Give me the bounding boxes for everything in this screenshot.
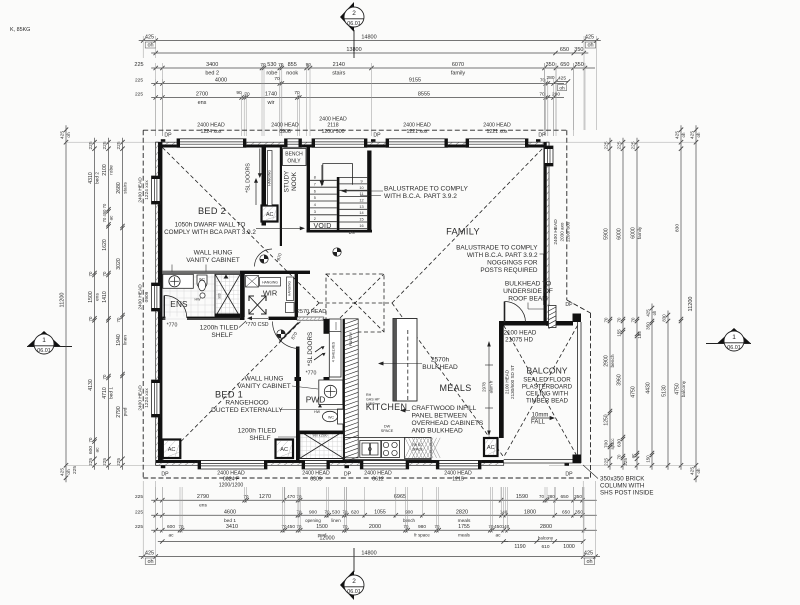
svg-text:70: 70	[278, 62, 284, 68]
svg-text:AC: AC	[487, 445, 495, 451]
svg-text:4130: 4130	[88, 379, 94, 391]
svg-text:2400 HEAD: 2400 HEAD	[138, 177, 144, 203]
note craftwood infill	[400, 405, 484, 435]
svg-text:13: 13	[359, 205, 363, 209]
svg-text:HW: HW	[314, 410, 321, 414]
svg-text:DN: DN	[349, 230, 355, 235]
svg-text:4710: 4710	[102, 387, 108, 399]
svg-text:PLASTERBOARD: PLASTERBOARD	[522, 384, 573, 391]
svg-text:830: 830	[675, 224, 681, 232]
svg-text:650: 650	[560, 494, 568, 500]
svg-text:2400 HEAD: 2400 HEAD	[197, 123, 225, 129]
svg-text:oh: oh	[696, 132, 701, 137]
wall nook/stairs	[307, 148, 310, 233]
svg-text:alum fr: alum fr	[489, 380, 494, 393]
svg-text:350: 350	[546, 62, 555, 68]
svg-text:70: 70	[343, 509, 348, 514]
note wall hung vanity (pwd)	[237, 376, 318, 391]
svg-text:WIR: WIR	[263, 288, 277, 297]
section marker right (1/06.01)	[706, 328, 751, 351]
svg-text:DUCTED EXTERNALLY: DUCTED EXTERNALLY	[211, 407, 283, 414]
window top wall 1221 xox east	[466, 139, 528, 148]
pwd wc	[323, 409, 344, 424]
svg-text:9: 9	[360, 180, 362, 184]
svg-text:425: 425	[690, 467, 696, 475]
svg-text:SHELF: SHELF	[249, 435, 270, 442]
svg-text:225: 225	[135, 524, 143, 530]
roof ridge and hip dashed lines	[162, 148, 543, 461]
pwd vanity	[319, 380, 343, 405]
wire right dim columns	[549, 125, 701, 482]
svg-text:150: 150	[646, 455, 651, 463]
svg-text:VANITY CABINET: VANITY CABINET	[237, 383, 291, 390]
svg-text:meals: meals	[458, 533, 471, 538]
svg-text:1215: 1215	[452, 477, 464, 483]
svg-text:600: 600	[167, 524, 175, 530]
svg-text:225: 225	[135, 78, 143, 84]
svg-text:2: 2	[352, 578, 356, 585]
svg-text:16: 16	[359, 224, 363, 228]
svg-text:oh: oh	[681, 132, 686, 137]
svg-text:225: 225	[72, 466, 78, 474]
svg-text:1940: 1940	[116, 334, 122, 346]
label 10mm fall	[531, 413, 555, 426]
note bulkhead roof beam	[503, 281, 553, 310]
note balustrade stairs	[341, 186, 469, 201]
svg-text:TIMBER BEAD: TIMBER BEAD	[526, 398, 568, 405]
svg-text:BALUSTRADE TO COMPLY: BALUSTRADE TO COMPLY	[456, 245, 538, 252]
bed1 door arc	[273, 322, 300, 349]
svg-text:1221 xox: 1221 xox	[486, 129, 507, 135]
wall balcony top	[499, 321, 573, 326]
svg-text:2140: 2140	[333, 62, 345, 68]
note 2570h bulkhead	[378, 357, 458, 372]
AC unit meals	[484, 438, 498, 456]
svg-text:1590: 1590	[516, 494, 528, 500]
svg-text:1224 xox: 1224 xox	[144, 180, 150, 200]
svg-text:DP: DP	[164, 133, 172, 139]
svg-text:225: 225	[135, 92, 143, 98]
svg-text:1755: 1755	[458, 524, 470, 530]
fridge space hatched	[405, 438, 441, 459]
wall pwd west	[296, 347, 300, 462]
svg-text:70: 70	[102, 374, 107, 379]
svg-text:HANGING: HANGING	[268, 170, 272, 186]
wall pwd north	[295, 377, 330, 381]
window bottom wall 0612	[360, 461, 408, 470]
svg-text:2400 HEAD: 2400 HEAD	[138, 385, 144, 411]
svg-text:ac: ac	[96, 447, 101, 453]
svg-text:HANGING: HANGING	[288, 281, 292, 296]
bench only box	[283, 149, 307, 166]
svg-text:AC: AC	[280, 447, 288, 453]
svg-text:balcony: balcony	[538, 536, 554, 541]
window left wall bed1	[152, 380, 161, 417]
svg-text:ac: ac	[109, 215, 114, 220]
svg-text:oh: oh	[696, 468, 701, 473]
svg-text:1200/ 900: 1200/ 900	[321, 129, 344, 135]
svg-text:2900: 2900	[604, 355, 610, 367]
svg-text:0612: 0612	[372, 477, 384, 483]
svg-text:VOID: VOID	[314, 223, 332, 230]
svg-text:630: 630	[617, 439, 623, 447]
svg-text:70: 70	[244, 92, 250, 98]
wire bottom dim row 2	[135, 509, 597, 524]
svg-text:2400 HEAD: 2400 HEAD	[403, 123, 431, 129]
svg-text:70: 70	[297, 509, 302, 514]
wire bottom dim row 1	[135, 494, 597, 509]
label balcony	[522, 366, 573, 405]
svg-text:DP: DP	[565, 302, 573, 308]
svg-text:DW: DW	[384, 425, 391, 429]
svg-text:2118: 2118	[327, 123, 338, 129]
svg-text:2: 2	[352, 10, 356, 17]
robe hanging rail	[268, 151, 273, 206]
svg-text:70 450 70: 70 450 70	[102, 203, 107, 222]
roof overhang dashed outline	[143, 130, 590, 478]
wire bottom dim row 5 (overall 14800)	[139, 551, 600, 566]
svg-text:POSTS REQUIRED: POSTS REQUIRED	[480, 267, 538, 274]
svg-text:8555: 8555	[418, 92, 430, 98]
svg-text:NOOK: NOOK	[291, 171, 298, 191]
wall exterior left	[156, 142, 159, 465]
wall wir east	[295, 274, 298, 320]
svg-text:3960: 3960	[617, 374, 623, 386]
svg-text:WC: WC	[328, 415, 334, 419]
svg-text:425: 425	[60, 131, 66, 139]
svg-text:BALCONY: BALCONY	[526, 366, 567, 376]
svg-text:600: 600	[88, 446, 94, 454]
wire left dim columns	[60, 125, 163, 482]
svg-text:350: 350	[574, 494, 582, 500]
svg-text:PWD: PWD	[306, 395, 326, 405]
svg-text:1050h DWARF WALL TO: 1050h DWARF WALL TO	[175, 222, 246, 229]
svg-text:900 x1500: 900 x1500	[313, 434, 328, 438]
svg-text:425: 425	[585, 35, 594, 41]
wall wir bottom	[269, 317, 298, 320]
svg-text:2100: 2100	[102, 164, 108, 176]
opening hatch 2570 head hall-kitchen	[297, 317, 324, 320]
svg-text:stairs: stairs	[332, 71, 345, 77]
svg-text:linen: linen	[331, 518, 341, 523]
svg-text:6000: 6000	[631, 227, 637, 239]
balcony bottom edge	[504, 460, 581, 464]
wire top dim row C (room string)	[134, 62, 595, 77]
svg-text:11200: 11200	[688, 297, 694, 312]
svg-text:2100 HEAD: 2100 HEAD	[505, 369, 510, 394]
svg-text:855: 855	[288, 62, 297, 68]
svg-text:oh: oh	[147, 43, 153, 49]
window bottom wall 0309	[302, 461, 330, 470]
svg-text:ens: ens	[199, 504, 207, 509]
svg-text:155: 155	[637, 331, 642, 339]
svg-text:425: 425	[646, 309, 651, 317]
svg-text:HW: HW	[195, 298, 202, 302]
svg-text:70: 70	[297, 524, 302, 529]
svg-text:VANITY CABINET: VANITY CABINET	[186, 257, 240, 264]
svg-text:70: 70	[631, 317, 636, 322]
AC unit bed1 east	[276, 440, 294, 459]
svg-text:5900: 5900	[604, 228, 610, 240]
svg-text:425: 425	[584, 551, 593, 557]
svg-text:SEALED FLOOR: SEALED FLOOR	[523, 377, 571, 384]
svg-text:280: 280	[547, 494, 555, 499]
wir hanging top	[260, 278, 281, 287]
svg-text:0309: 0309	[310, 477, 322, 483]
svg-text:COMPLY WITH BCA PART 3.9.2: COMPLY WITH BCA PART 3.9.2	[164, 229, 256, 236]
svg-text:425: 425	[145, 551, 154, 557]
wall pantry west	[343, 319, 345, 461]
svg-text:1224 xox: 1224 xox	[200, 129, 221, 135]
svg-text:2790: 2790	[116, 406, 122, 418]
svg-text:oh: oh	[652, 310, 657, 315]
svg-text:470: 470	[287, 494, 295, 500]
label bottom windows	[161, 471, 573, 489]
svg-text:2570 HEAD: 2570 HEAD	[297, 309, 327, 315]
dwarf wall under stairs	[307, 230, 373, 233]
wall exterior top	[156, 142, 549, 145]
svg-text:70: 70	[539, 494, 544, 499]
svg-text:4750: 4750	[675, 383, 681, 395]
svg-text:AC: AC	[168, 447, 176, 453]
label top windows	[164, 117, 546, 139]
svg-text:OVERHEAD CABINETS: OVERHEAD CABINETS	[412, 420, 484, 427]
svg-text:2700: 2700	[196, 92, 208, 98]
svg-text:bed 1: bed 1	[224, 518, 236, 524]
svg-text:70: 70	[404, 524, 409, 529]
svg-text:2820: 2820	[456, 509, 468, 515]
label rh gas hp ubo	[366, 393, 380, 406]
svg-text:1200/1200: 1200/1200	[219, 483, 244, 489]
window left wall bed2	[152, 176, 161, 204]
svg-text:2978: 2978	[482, 382, 487, 392]
skylight dashed box over kitchen	[326, 274, 384, 332]
window bottom wall 1215	[436, 461, 481, 470]
svg-text:oh: oh	[587, 43, 593, 49]
svg-text:HANGING: HANGING	[262, 281, 278, 285]
label dw space	[381, 425, 394, 434]
svg-text:12000: 12000	[319, 536, 334, 542]
svg-text:WITH B.C.A. PART 3.9.2: WITH B.C.A. PART 3.9.2	[384, 193, 457, 200]
svg-text:opening: opening	[305, 518, 321, 523]
svg-text:650: 650	[560, 47, 569, 53]
svg-text:3400: 3400	[206, 62, 218, 68]
svg-text:70: 70	[179, 524, 184, 529]
svg-text:bed 1: bed 1	[109, 387, 115, 399]
svg-text:ONLY: ONLY	[287, 159, 301, 165]
svg-text:610: 610	[541, 544, 549, 550]
svg-text:2400 HEAD: 2400 HEAD	[483, 123, 511, 129]
window top wall 1224 xox	[177, 139, 246, 148]
window top wall 1200/900	[312, 139, 367, 148]
svg-text:14800: 14800	[361, 551, 376, 557]
svg-text:balcony: balcony	[681, 380, 687, 397]
wire bottom dim row 4	[158, 536, 586, 551]
svg-text:STUDY: STUDY	[284, 170, 291, 192]
svg-text:4750: 4750	[631, 386, 637, 398]
wire bottom extension lines	[143, 481, 595, 559]
note rangehood	[211, 400, 344, 415]
svg-text:ens: ens	[96, 293, 101, 301]
svg-text:ens: ens	[198, 100, 207, 106]
wire bottom dim row 3	[135, 524, 597, 539]
bed2 door arc	[255, 249, 273, 267]
svg-text:2400 HEAD: 2400 HEAD	[319, 117, 347, 123]
svg-text:225: 225	[102, 458, 108, 466]
svg-text:530: 530	[267, 62, 276, 68]
svg-text:425: 425	[60, 468, 66, 476]
svg-text:350: 350	[574, 47, 583, 53]
svg-text:oh: oh	[147, 559, 153, 565]
note tiled shelf ens	[200, 321, 246, 339]
svg-text:9155: 9155	[409, 78, 421, 84]
svg-text:BULKHEAD TO: BULKHEAD TO	[505, 281, 551, 288]
svg-text:1500: 1500	[88, 291, 94, 303]
window right wall corner	[545, 146, 554, 166]
svg-text:4000: 4000	[215, 78, 227, 84]
svg-text:225: 225	[88, 458, 94, 466]
svg-text:1270: 1270	[259, 494, 271, 500]
svg-text:155: 155	[617, 329, 622, 337]
svg-text:15: 15	[359, 218, 363, 222]
svg-text:70: 70	[297, 494, 302, 499]
svg-text:14: 14	[359, 211, 363, 215]
svg-text:2570h: 2570h	[431, 357, 450, 364]
svg-text:3: 3	[314, 210, 316, 214]
wir exhaust fan	[249, 296, 266, 314]
svg-text:robe: robe	[266, 71, 277, 77]
linen closet	[324, 319, 342, 377]
stairs treads right flight	[339, 178, 367, 229]
svg-text:1740: 1740	[265, 92, 277, 98]
window left wall ens	[152, 283, 161, 311]
ens vanity	[163, 274, 194, 288]
svg-text:830: 830	[662, 314, 667, 322]
svg-text:70: 70	[88, 316, 93, 321]
svg-text:530: 530	[332, 509, 340, 515]
svg-text:425: 425	[145, 35, 154, 41]
svg-text:WC: WC	[199, 278, 205, 282]
svg-text:1224 xox: 1224 xox	[144, 388, 150, 408]
svg-text:06.01: 06.01	[347, 21, 361, 27]
svg-text:2130/600 SD ST: 2130/600 SD ST	[510, 365, 515, 399]
svg-text:980: 980	[418, 524, 426, 530]
svg-text:bed 2: bed 2	[205, 71, 219, 77]
svg-text:wir: wir	[266, 100, 274, 106]
svg-text:*770 CSD: *770 CSD	[245, 322, 268, 328]
label balcony door vertical	[505, 365, 516, 399]
wall robe/nook	[280, 148, 282, 247]
svg-text:family: family	[637, 226, 643, 239]
note balustrade family	[456, 245, 543, 306]
svg-text:nook: nook	[286, 71, 298, 77]
svg-text:5130: 5130	[662, 385, 668, 397]
AC unit bed2	[262, 206, 278, 222]
svg-text:DP: DP	[565, 472, 573, 478]
svg-text:MEALS: MEALS	[439, 383, 471, 393]
svg-text:2400 HEAD: 2400 HEAD	[553, 219, 559, 245]
svg-text:bench: bench	[610, 354, 616, 367]
svg-text:225: 225	[135, 494, 143, 500]
svg-text:UNDERSIDE OF: UNDERSIDE OF	[503, 288, 553, 295]
svg-text:RANGEHOOD: RANGEHOOD	[225, 400, 268, 407]
svg-text:650: 650	[560, 62, 569, 68]
svg-text:225: 225	[134, 62, 143, 68]
svg-text:2800: 2800	[540, 524, 552, 530]
svg-text:70: 70	[88, 271, 93, 276]
svg-text:70: 70	[260, 62, 266, 68]
svg-text:fr space: fr space	[414, 533, 430, 538]
svg-text:0906: 0906	[279, 129, 291, 135]
svg-text:06.01: 06.01	[37, 348, 51, 354]
svg-text:350x350 BRICK: 350x350 BRICK	[600, 476, 645, 483]
svg-text:AND BULKHEAD: AND BULKHEAD	[412, 428, 464, 435]
svg-text:1620: 1620	[102, 239, 108, 251]
svg-text:1250: 1250	[604, 414, 610, 425]
meals alum dim	[482, 341, 494, 436]
bed1 door pivot symbol	[277, 330, 285, 338]
svg-text:CRAFTWOOD INFILL: CRAFTWOOD INFILL	[412, 405, 477, 412]
svg-text:oh: oh	[66, 132, 72, 138]
svg-text:SHELF: SHELF	[211, 332, 232, 339]
svg-text:70: 70	[617, 317, 622, 322]
svg-text:5: 5	[314, 196, 316, 200]
window top wall 0906	[285, 139, 302, 148]
svg-text:DP: DP	[538, 133, 546, 139]
DP corner boxes	[161, 139, 569, 468]
svg-text:900: 900	[405, 509, 413, 515]
balcony door arc to family	[505, 302, 526, 323]
svg-text:2: 2	[314, 217, 316, 221]
svg-text:1410: 1410	[102, 291, 108, 303]
stairs tread numbers	[314, 176, 364, 228]
svg-text:425: 425	[675, 131, 681, 139]
svg-text:oh: oh	[586, 559, 592, 565]
linen sl doors label and arrows	[307, 332, 326, 366]
svg-text:70: 70	[539, 92, 545, 98]
note tiled shelf pwd	[238, 428, 296, 443]
svg-text:8: 8	[314, 176, 316, 180]
balcony ceiling dashed diagonals	[504, 326, 578, 458]
svg-text:70: 70	[274, 76, 280, 82]
svg-text:2030 axo: 2030 axo	[560, 222, 565, 241]
svg-text:oh: oh	[66, 469, 72, 475]
wall exterior right	[546, 142, 549, 325]
wir shelf right lower	[286, 303, 295, 313]
svg-text:2100 HEAD: 2100 HEAD	[504, 330, 537, 337]
wall ens bottom	[162, 317, 244, 320]
svg-text:meals: meals	[458, 518, 471, 524]
svg-text:SHS POST INSIDE: SHS POST INSIDE	[600, 490, 654, 497]
svg-text:3020: 3020	[116, 258, 122, 270]
svg-text:70: 70	[435, 524, 440, 529]
svg-text:FAMILY: FAMILY	[446, 227, 480, 237]
svg-text:1: 1	[42, 337, 46, 344]
svg-text:1200h TILED: 1200h TILED	[238, 428, 277, 435]
pantry hatched strip	[345, 319, 359, 462]
svg-text:4 SHELVES: 4 SHELVES	[332, 341, 336, 362]
svg-text:SPACE: SPACE	[381, 429, 394, 433]
balcony east edge	[578, 322, 582, 463]
svg-text:ac: ac	[168, 534, 174, 539]
stairs handrail return	[320, 164, 353, 187]
ens shower	[215, 274, 241, 317]
svg-text:620: 620	[351, 509, 359, 515]
svg-text:70: 70	[88, 437, 93, 442]
svg-text:2790: 2790	[197, 494, 209, 500]
svg-text:70: 70	[604, 317, 609, 322]
svg-text:RH: RH	[366, 393, 372, 397]
